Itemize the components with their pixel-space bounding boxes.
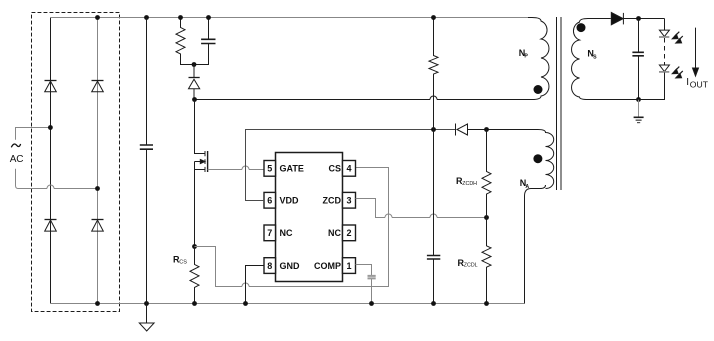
node secondary phase dot: [577, 23, 586, 32]
transformer aux winding Na: [538, 130, 554, 189]
wire pin6 VDD supply: [246, 130, 456, 201]
svg-text:CS: CS: [179, 259, 187, 265]
wire gate to pin5: [208, 166, 264, 170]
pin 2 box: [343, 225, 356, 241]
transformer core: [557, 17, 562, 190]
LED LED1: [659, 19, 683, 44]
svg-text:NC: NC: [280, 228, 293, 238]
svg-text:2: 2: [346, 228, 351, 238]
wire drain line to primary: [195, 96, 533, 99]
wire pin1 COMP: [356, 265, 372, 304]
svg-text:6: 6: [267, 196, 272, 206]
node cvdd rail: [431, 301, 436, 306]
svg-text:4: 4: [346, 164, 351, 174]
wire aux return: [525, 185, 546, 304]
wire pin8 GND to rail: [246, 266, 265, 304]
node comp rail: [369, 301, 374, 306]
resistor Rstartup with Cvdd branch: [427, 18, 440, 304]
node output cap bottom: [636, 97, 641, 102]
svg-text:CS: CS: [328, 164, 341, 174]
node vdd startup: [431, 127, 436, 132]
svg-text:COMP: COMP: [314, 261, 341, 271]
node zcd divider: [484, 215, 489, 220]
svg-text:ZCDH: ZCDH: [462, 181, 477, 187]
resistor Rcs: [190, 247, 199, 304]
node aux phase dot: [533, 154, 542, 163]
node primary phase dot: [534, 85, 543, 94]
node top rail bridge: [95, 15, 100, 20]
resistor Rzcdl: [482, 218, 491, 304]
wire secondary bottom: [588, 99, 665, 101]
diode D4 (bridge lower-right): [92, 220, 104, 232]
node Rcs bottom: [192, 301, 197, 306]
pin 5 box: [264, 161, 276, 177]
svg-text:AC: AC: [10, 154, 23, 165]
pin numbers: [267, 164, 351, 271]
svg-text:3: 3: [346, 196, 351, 206]
node AC line1: [48, 125, 53, 130]
bridge rectifier dashed enclosure: [32, 13, 120, 312]
transformer T1 primary Np: [528, 18, 549, 100]
node bottom rail bridge: [95, 301, 100, 306]
capacitor Csnub: [194, 18, 216, 65]
node snubber bottom: [192, 62, 197, 67]
Iout arrow: [693, 28, 699, 77]
pin 1 box: [343, 258, 356, 274]
AC source connection bracket: [16, 128, 98, 189]
capacitor Cbulk: [140, 18, 153, 304]
ground (secondary earth): [634, 100, 644, 123]
transistor Q1 (MOSFET): [195, 100, 208, 247]
svg-text:VDD: VDD: [280, 196, 300, 206]
LED LED2: [639, 65, 683, 100]
svg-text:8: 8: [267, 261, 272, 271]
node Rcs top: [192, 244, 197, 249]
wire bottom rail (primary ground bus): [51, 303, 525, 305]
pin 6 box: [264, 192, 276, 208]
svg-text:NC: NC: [328, 228, 341, 238]
transformer secondary Ns: [572, 19, 592, 100]
svg-text:7: 7: [267, 228, 272, 238]
svg-text:I: I: [686, 77, 689, 88]
svg-text:P: P: [524, 54, 528, 60]
pin 8 box: [264, 258, 276, 274]
svg-text:ZCD: ZCD: [323, 196, 342, 206]
node startup top: [431, 15, 436, 20]
diode Dsnub (clamp): [189, 65, 200, 100]
diode D2 (bridge upper-right): [92, 81, 104, 92]
node drain: [192, 97, 197, 102]
svg-text:1: 1: [346, 261, 351, 271]
node output cap top: [636, 16, 641, 21]
resistor Rzcdh: [482, 130, 491, 218]
pin labels: [280, 164, 342, 271]
wire pin3 ZCD: [356, 199, 487, 218]
node snubber top R: [178, 15, 183, 20]
pin 7 box: [264, 225, 276, 241]
AC source label: [11, 144, 20, 147]
wire bridge left branch: [50, 18, 52, 304]
node GND rail: [243, 301, 248, 306]
pin 4 box: [343, 161, 356, 177]
resistor Rsnub: [176, 18, 194, 65]
node top rail bulk cap: [144, 15, 149, 20]
wire secondary top: [588, 18, 611, 20]
wire top rail (rectified HV bus): [51, 17, 532, 19]
ground (primary): [139, 304, 154, 332]
node AC line2: [95, 186, 100, 191]
wire LED dashed: [664, 38, 666, 65]
svg-text:5: 5: [267, 164, 272, 174]
diode Dvdd: [456, 124, 539, 136]
svg-text:GND: GND: [280, 261, 301, 271]
pin 3 box: [343, 192, 356, 208]
node snubber top C: [206, 15, 211, 20]
IC U1 body: [276, 153, 343, 282]
svg-text:ZCDL: ZCDL: [464, 262, 478, 268]
node vdd rzcdh: [484, 127, 489, 132]
svg-text:S: S: [593, 54, 597, 60]
wire bridge right branch: [97, 18, 99, 304]
svg-text:OUT: OUT: [690, 79, 709, 89]
node rzcdl rail: [484, 301, 489, 306]
diode D1 (bridge upper-left): [45, 81, 57, 92]
svg-text:GATE: GATE: [280, 164, 304, 174]
diode Dout: [611, 13, 664, 25]
wire CS sense: [195, 168, 389, 287]
capacitor Cout: [632, 19, 644, 100]
node bottom rail bulk cap: [144, 301, 149, 306]
diode D3 (bridge lower-left): [45, 220, 57, 232]
capacitor Ccomp: [368, 276, 376, 279]
